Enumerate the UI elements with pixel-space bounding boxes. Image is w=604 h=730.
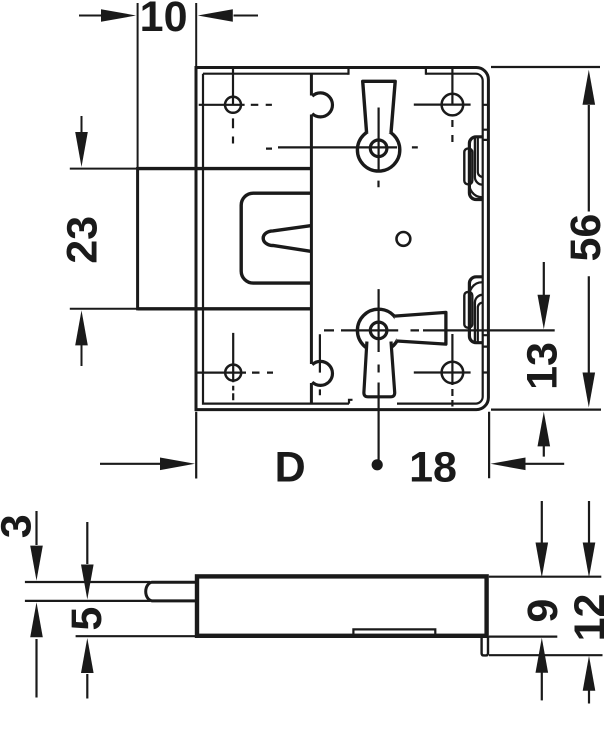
- svg-text:3: 3: [0, 514, 40, 538]
- svg-text:18: 18: [409, 444, 457, 492]
- svg-text:56: 56: [562, 214, 604, 262]
- svg-text:5: 5: [63, 607, 111, 631]
- svg-text:12: 12: [566, 594, 604, 642]
- svg-text:23: 23: [59, 216, 107, 264]
- svg-text:D: D: [275, 444, 306, 492]
- svg-text:10: 10: [140, 0, 188, 41]
- svg-text:13: 13: [518, 342, 566, 390]
- svg-text:9: 9: [519, 599, 567, 623]
